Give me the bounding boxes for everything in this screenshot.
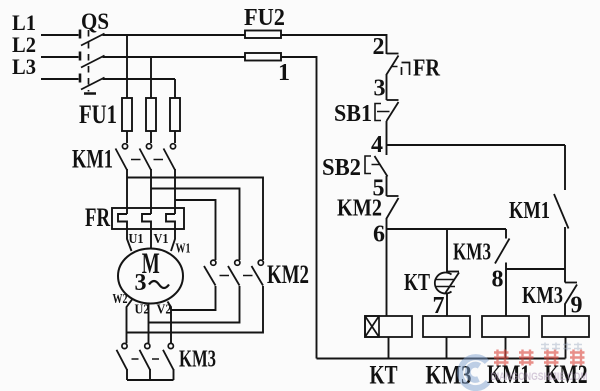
svg-text:KT: KT [404, 270, 430, 296]
switch QS pole 2 blade [81, 56, 105, 68]
wire node 4 segment [386, 121, 388, 155]
thermal contact FR blade [387, 56, 399, 75]
watermark faint gray chinese text upper [541, 343, 582, 351]
wire tee pole1 to KM2 pole3 [127, 178, 263, 261]
wire FU1-2 to KM1 contact [150, 131, 152, 143]
wire FU1-3 to KM1 contact [174, 131, 176, 143]
button SB2 actuator dash [372, 164, 380, 166]
wire L1 from QS to FU2 [103, 34, 246, 36]
wire node 3 segment [386, 74, 388, 100]
time contact KT delay symbol arc [435, 273, 452, 294]
motor M 3-phase circle [118, 249, 183, 304]
wire node 6 to KT contact [446, 229, 448, 272]
wire node 6 branch [387, 228, 507, 230]
wire node 8 branch [506, 268, 565, 270]
switch QS pole 1 terminal tick [79, 30, 82, 39]
svg-text:4: 4 [371, 132, 383, 158]
svg-text:QS: QS [81, 9, 109, 34]
coil KM3 rectangle [423, 316, 470, 337]
switch QS linkage dashed line [88, 30, 90, 92]
svg-text:3: 3 [374, 76, 386, 102]
svg-text:FU2: FU2 [244, 5, 285, 31]
switch QS linkage end tick [84, 92, 96, 95]
switch QS pole 3 terminal tick [79, 74, 82, 83]
contactor KM3 linkage dashes [132, 358, 165, 360]
auxiliary contact KM3 blade [495, 239, 510, 264]
button SB1 blade [387, 102, 399, 121]
thermal relay FR heater element 2 [142, 214, 151, 229]
wire FR to motor U1 [127, 229, 132, 251]
wire KM1 pole 1 down to FR heater [126, 169, 128, 214]
wire tee pole2 to KM2 pole2 [151, 189, 240, 261]
wire node 9 to KM2 coil [564, 304, 566, 317]
coil KT rectangle [365, 316, 412, 337]
bottom rail wire [317, 358, 566, 360]
contactor KM3 pole 2 terminal circle [145, 343, 150, 348]
wire KT coil to bottom rail [388, 337, 390, 359]
contactor KM1 pole 3 terminal circle [170, 144, 175, 149]
wire FU1-1 to KM1 contact [126, 131, 128, 143]
wire KM3 pole 2 to star bar [149, 369, 151, 380]
svg-text:3: 3 [135, 270, 147, 296]
wire L2 incoming [41, 56, 79, 58]
svg-text:U1: U1 [129, 232, 144, 247]
interlock contact KM2 bar [387, 195, 399, 197]
wire FU2 upper output to control corner [281, 35, 387, 54]
switch QS pole 3 blade [81, 78, 105, 90]
svg-text:FR: FR [85, 203, 110, 232]
wire KM1 coil to bottom rail [505, 337, 507, 359]
svg-text:KM3: KM3 [453, 240, 491, 266]
wire L2 from QS to FU2 [103, 56, 246, 58]
wire phase drop 3 [174, 79, 176, 98]
button SB1 actuator dash [377, 111, 390, 113]
switch QS pole 1 blade [81, 34, 105, 46]
svg-text:8: 8 [492, 267, 504, 293]
button SB1 stop contact bar [387, 99, 399, 101]
thermal contact FR bar [387, 53, 399, 55]
wire phase drop 2 [150, 57, 152, 98]
wire L3 from QS [103, 78, 176, 80]
contactor KM2 pole 1 blade [204, 266, 216, 286]
svg-text:W2: W2 [113, 292, 128, 307]
fuse FU1 element 3 [170, 98, 180, 131]
thermal relay FR heater element 1 [118, 214, 127, 229]
wire node 8 segment [505, 263, 507, 317]
coil KM2 rectangle [542, 316, 589, 337]
watermark red chinese text row [494, 350, 585, 366]
thermal contact FR actuator dash [392, 66, 398, 68]
holding contact KM1 blade [554, 194, 569, 229]
svg-text:DIANGONGSHIJIE.COM: DIANGONGSHIJIE.COM [491, 371, 588, 383]
contactor KM2 pole 2 terminal circle [235, 260, 240, 265]
wire node 6 segment [386, 218, 388, 316]
contactor KM2 pole 2 blade [228, 266, 240, 286]
contactor KM3 pole 2 blade [140, 350, 151, 370]
svg-text:SB2: SB2 [322, 155, 361, 181]
fuse FU1 element 2 [146, 98, 156, 131]
wire motor U2 down to KM3 pole2 [148, 304, 150, 344]
svg-text:KM3: KM3 [522, 283, 563, 309]
coil KM1 rectangle [482, 316, 529, 337]
button SB1 cap bracket [375, 104, 381, 121]
contactor KM2 pole 3 terminal circle [258, 260, 263, 265]
contactor KM1 pole 1 terminal circle [122, 144, 127, 149]
fuse FU2 lower element [245, 53, 281, 61]
thermal relay FR heater element 3 [166, 214, 175, 229]
button SB2 start blade [375, 156, 388, 177]
svg-text:6: 6 [373, 222, 385, 248]
contactor KM1 pole 2 terminal circle [146, 144, 151, 149]
svg-text:KM1: KM1 [509, 198, 550, 224]
wire node 5 segment [386, 176, 388, 196]
contactor KM3 pole 1 blade [117, 350, 128, 370]
wire FU2 lower output (net 1) down left control rail [281, 57, 317, 359]
svg-text:KM1: KM1 [72, 145, 113, 174]
wire KM2 coil to bottom rail [565, 337, 567, 359]
button SB2 cap bracket [365, 156, 371, 174]
fuse FU1 element 1 [122, 98, 132, 131]
wire FR to motor W1 [171, 229, 175, 251]
svg-text:KM2: KM2 [337, 196, 382, 222]
svg-text:1: 1 [278, 60, 290, 86]
contactor KM1 pole 1 blade [116, 149, 128, 171]
wire motor W2 down to KM3 pole1 [127, 300, 133, 344]
wire L3 incoming [41, 78, 79, 80]
wire phase drop 1 [126, 35, 128, 98]
watermark blue swirl logo [460, 357, 488, 388]
svg-text:FR: FR [413, 56, 441, 82]
wire node 4 branch to KM1 holding contact [387, 144, 566, 146]
svg-text:V1: V1 [154, 232, 169, 247]
wire tee pole3 to KM2 pole1 [175, 200, 216, 260]
contactor KM1 pole 3 blade [164, 149, 176, 171]
wire KM3 pole 3 to star bar [173, 369, 175, 380]
thermal contact FR release hook [402, 63, 410, 76]
thermal relay FR heater box [112, 208, 184, 229]
wire KM1 holding contact to node 8 [564, 227, 566, 283]
wire FR to motor V1 [150, 229, 152, 249]
wire KM2 pole2 down to U2 tee [149, 286, 240, 323]
contactor KM1 pole 2 blade [140, 149, 152, 171]
interlock contact KM3 blade [565, 285, 577, 305]
holding contact KM1 top stub [564, 145, 566, 190]
wire KT contact to KM3 coil [446, 293, 448, 316]
svg-text:KM3: KM3 [179, 347, 216, 373]
svg-text:SB1: SB1 [334, 101, 372, 127]
svg-text:L3: L3 [12, 54, 36, 79]
interlock contact KM2 blade [387, 198, 399, 219]
wire KM1 pole 2 down to FR heater [150, 169, 152, 214]
svg-text:FU1: FU1 [79, 100, 117, 129]
wire KM3 coil to bottom rail [446, 337, 448, 359]
auxiliary contact KM3 top stub [505, 229, 507, 239]
contactor KM2 linkage dashes [220, 275, 255, 277]
svg-text:W1: W1 [176, 242, 191, 257]
contactor KM1 linkage dashes [131, 159, 165, 161]
wire L1 incoming [41, 34, 79, 36]
coil KT time element X box [365, 316, 379, 337]
interlock contact KM3 bar [565, 282, 577, 284]
time contact KT blade [445, 273, 459, 294]
fuse FU2 upper element [245, 31, 281, 39]
contactor KM3 pole 3 terminal circle [168, 343, 173, 348]
svg-text:U2: U2 [135, 303, 150, 318]
contactor KM3 pole 3 blade [163, 350, 174, 370]
contactor KM3 pole 1 terminal circle [122, 343, 127, 348]
contactor KM2 pole 3 blade [252, 266, 264, 286]
wire KM1 pole 3 down to FR heater [174, 169, 176, 214]
motor tilde [149, 281, 169, 288]
svg-text:KM2: KM2 [267, 260, 309, 289]
contactor KM2 pole 1 terminal circle [211, 260, 216, 265]
wire KM2 pole1 down to V2 tee [171, 286, 216, 310]
svg-text:9: 9 [571, 293, 583, 319]
wire motor V2 down to KM3 pole3 [168, 302, 172, 344]
wire KM2 pole3 down to W2 tee [127, 286, 264, 333]
time contact KT top tick [447, 271, 459, 273]
wire KM3 pole 1 to star bar [126, 369, 128, 380]
switch QS pole 2 terminal tick [79, 52, 82, 61]
svg-text:2: 2 [373, 34, 385, 60]
svg-text:KT: KT [370, 361, 398, 390]
time contact KT delay symbol chords [435, 280, 455, 287]
KM3 star point bar [127, 379, 174, 381]
